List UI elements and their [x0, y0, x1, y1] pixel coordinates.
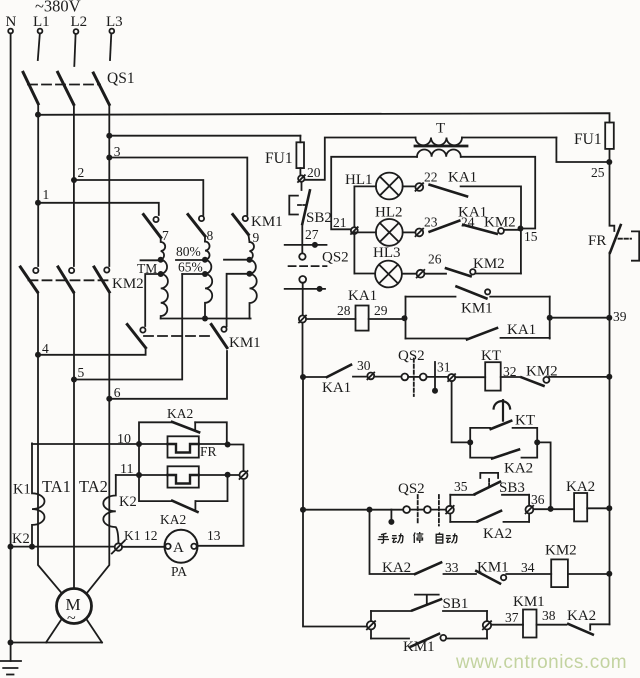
svg-text:KM1: KM1 — [251, 214, 283, 230]
svg-text:KM1: KM1 — [477, 560, 509, 576]
svg-text:KA2: KA2 — [160, 512, 186, 527]
svg-text:65%: 65% — [178, 260, 203, 275]
svg-text:12: 12 — [144, 528, 158, 543]
svg-text:25: 25 — [591, 165, 605, 180]
svg-text:~: ~ — [67, 610, 76, 627]
svg-text:www.cntronics.com: www.cntronics.com — [455, 652, 627, 673]
svg-text:KT: KT — [481, 348, 501, 364]
svg-text:31: 31 — [437, 360, 451, 375]
svg-text:QS2: QS2 — [398, 348, 425, 364]
svg-text:KA2: KA2 — [504, 461, 533, 477]
svg-text:24: 24 — [461, 215, 475, 230]
svg-text:1: 1 — [43, 187, 50, 202]
svg-text:FR: FR — [588, 233, 606, 249]
svg-text:SB2: SB2 — [306, 210, 332, 226]
svg-text:KM2: KM2 — [484, 215, 516, 231]
svg-text:SB3: SB3 — [499, 480, 525, 496]
svg-text:13: 13 — [207, 528, 221, 543]
svg-text:KA2: KA2 — [167, 406, 193, 421]
svg-text:TA1: TA1 — [42, 477, 71, 496]
svg-text:10: 10 — [117, 432, 131, 447]
svg-text:QS2: QS2 — [398, 481, 425, 497]
svg-text:K1: K1 — [13, 482, 31, 498]
svg-text:6: 6 — [114, 385, 121, 400]
svg-text:2: 2 — [78, 165, 85, 180]
svg-text:KA1: KA1 — [448, 170, 477, 186]
svg-text:KM2: KM2 — [112, 276, 144, 292]
svg-text:3: 3 — [114, 144, 121, 159]
svg-text:KM1: KM1 — [513, 594, 545, 610]
svg-text:21: 21 — [333, 215, 347, 230]
svg-text:TA2: TA2 — [79, 477, 108, 496]
svg-text:K2: K2 — [12, 531, 30, 547]
svg-text:FR: FR — [200, 444, 217, 459]
svg-text:26: 26 — [428, 252, 442, 267]
svg-text:23: 23 — [424, 215, 438, 230]
svg-text:KA2: KA2 — [382, 560, 411, 576]
svg-text:36: 36 — [531, 492, 545, 507]
svg-text:PA: PA — [171, 564, 187, 579]
svg-text:QS2: QS2 — [322, 250, 349, 266]
svg-text:L1: L1 — [33, 14, 50, 30]
svg-text:22: 22 — [424, 170, 438, 185]
svg-text:11: 11 — [120, 462, 133, 477]
svg-text:33: 33 — [445, 560, 459, 575]
svg-text:28: 28 — [337, 303, 351, 318]
svg-text:39: 39 — [613, 309, 627, 324]
svg-text:HL2: HL2 — [375, 205, 403, 221]
svg-text:KT: KT — [515, 413, 535, 429]
svg-text:KA2: KA2 — [483, 526, 512, 542]
svg-text:HL3: HL3 — [373, 245, 401, 261]
svg-text:30: 30 — [357, 358, 371, 373]
svg-text:N: N — [6, 14, 17, 30]
svg-text:5: 5 — [78, 365, 85, 380]
svg-text:FU1: FU1 — [574, 131, 602, 148]
svg-text:KM2: KM2 — [545, 543, 577, 559]
svg-text:27: 27 — [305, 227, 319, 242]
svg-text:7: 7 — [162, 228, 169, 243]
svg-text:HL1: HL1 — [345, 172, 373, 188]
svg-text:T: T — [436, 121, 445, 137]
svg-text:TM: TM — [137, 261, 157, 276]
svg-text:80%: 80% — [176, 244, 201, 259]
svg-text:20: 20 — [307, 165, 321, 180]
svg-text:37: 37 — [505, 610, 519, 625]
svg-text:KA2: KA2 — [566, 479, 595, 495]
svg-text:K2: K2 — [119, 494, 137, 510]
svg-text:QS1: QS1 — [107, 70, 135, 87]
svg-text:35: 35 — [454, 479, 468, 494]
svg-text:A: A — [173, 540, 184, 556]
svg-text:KM1: KM1 — [403, 639, 435, 655]
svg-text:SB1: SB1 — [443, 596, 469, 612]
svg-text:KA1: KA1 — [507, 322, 536, 338]
svg-text:8: 8 — [207, 228, 214, 243]
svg-text:32: 32 — [503, 364, 517, 379]
svg-text:KM1: KM1 — [229, 335, 261, 351]
svg-text:K1: K1 — [124, 528, 141, 543]
svg-text:4: 4 — [42, 341, 49, 356]
svg-text:KM2: KM2 — [473, 256, 505, 272]
svg-text:FU1: FU1 — [265, 150, 293, 167]
svg-text:KM1: KM1 — [461, 301, 493, 317]
svg-text:9: 9 — [253, 230, 260, 245]
svg-text:29: 29 — [374, 303, 388, 318]
svg-text:KA1: KA1 — [348, 288, 377, 304]
svg-text:34: 34 — [521, 560, 535, 575]
svg-text:15: 15 — [524, 229, 538, 244]
svg-text:KA1: KA1 — [322, 380, 351, 396]
svg-text:L2: L2 — [71, 14, 88, 30]
svg-text:KM2: KM2 — [526, 364, 558, 380]
svg-text:38: 38 — [542, 608, 556, 623]
svg-text:L3: L3 — [106, 14, 123, 30]
svg-text:KA2: KA2 — [567, 608, 596, 624]
